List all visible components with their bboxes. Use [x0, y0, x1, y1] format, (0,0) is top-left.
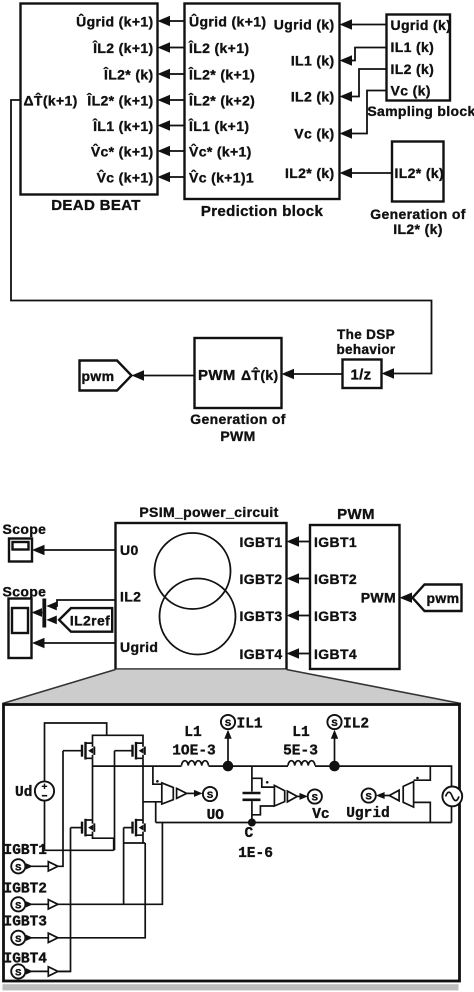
wire PWM IGBT3 to PSIM	[287, 610, 311, 620]
wire PWM IGBT2 to PSIM	[287, 573, 311, 583]
wire main output rail	[93, 766, 452, 787]
source Ud	[15, 781, 54, 801]
block U7 PSIM power circuit	[116, 523, 287, 670]
block U3 Sampling block	[367, 15, 474, 120]
wire gate IGBT4 riser	[58, 828, 71, 972]
wire Q2 gate lead	[115, 750, 133, 752]
svg-text:PWM: PWM	[361, 590, 396, 606]
svg-text:Ugrid (k): Ugrid (k)	[391, 17, 452, 33]
svg-text:ΔT̂(k+1): ΔT̂(k+1)	[24, 91, 78, 108]
block U6 Generation of PWM	[190, 338, 286, 444]
node J2	[329, 761, 340, 772]
svg-text:Vc: Vc	[312, 807, 329, 823]
svg-text:IGBT1: IGBT1	[4, 843, 48, 859]
svg-text:IL2 (k): IL2 (k)	[291, 89, 335, 105]
wire Prediction to DEADBEAT row7	[158, 172, 185, 182]
wire Prediction to DEADBEAT row2	[158, 42, 185, 52]
svg-text:Ugrid: Ugrid	[346, 806, 390, 822]
sensor IL2	[327, 715, 369, 762]
gate drive IGBT1	[4, 843, 58, 874]
svg-text:PWM: PWM	[198, 367, 236, 384]
svg-text:Ûgrid (k+1): Ûgrid (k+1)	[189, 13, 266, 30]
wire Sampling IL1(k) to Prediction	[340, 48, 387, 66]
wire Ud plus to bridge top	[45, 723, 107, 781]
svg-text:V̂c* (k+1): V̂c* (k+1)	[91, 142, 154, 159]
svg-text:Vc (k): Vc (k)	[391, 83, 431, 99]
wire PWM generation to pwm tag	[132, 370, 195, 380]
wire IGBT3 to riser	[58, 843, 145, 938]
capacitor C1	[238, 766, 273, 862]
gate drive IGBT2	[4, 882, 58, 913]
svg-text:pwm: pwm	[82, 368, 115, 384]
wire Ugrid probe minus	[414, 802, 431, 822]
svg-text:Ugrid (k): Ugrid (k)	[274, 17, 335, 33]
wire bridge top rail	[93, 735, 144, 743]
svg-text:DEAD BEAT: DEAD BEAT	[51, 197, 141, 214]
svg-text:ÎL2* (k): ÎL2* (k)	[103, 66, 153, 83]
probe Vc	[252, 778, 330, 823]
svg-text:IGBT2: IGBT2	[240, 571, 283, 587]
wire mux to scope SC2	[32, 608, 43, 617]
wire Prediction to DEADBEAT row4	[158, 95, 185, 105]
wire bridge right leg	[142, 758, 144, 820]
svg-text:Scope: Scope	[3, 521, 47, 537]
node J1	[223, 761, 234, 772]
svg-text:1E-6: 1E-6	[238, 846, 273, 862]
wire Vc probe minus	[252, 806, 275, 815]
wire Q4 source join	[124, 835, 146, 843]
svg-text:U0: U0	[120, 542, 139, 558]
svg-text:PSIM_power_circuit: PSIM_power_circuit	[139, 504, 278, 520]
wire Q3 gate lead	[71, 827, 83, 829]
mux bar	[42, 599, 46, 628]
wire bottom rail	[156, 822, 452, 824]
transformer circle bottom	[160, 579, 236, 655]
svg-text:IL2* (k): IL2* (k)	[285, 165, 334, 181]
zoom trapezoid	[3, 670, 462, 704]
svg-text:IL1: IL1	[237, 717, 263, 733]
svg-text:IGBT3: IGBT3	[240, 608, 283, 624]
wire bridge left leg	[92, 758, 94, 820]
svg-text:5E-3: 5E-3	[283, 744, 318, 760]
svg-text:PWM: PWM	[220, 428, 255, 444]
block U8 PWM	[310, 506, 400, 669]
svg-text:1/z: 1/z	[350, 367, 371, 384]
tag IL2ref	[59, 608, 112, 632]
svg-text:PWM: PWM	[337, 506, 375, 523]
svg-text:L1: L1	[184, 725, 202, 741]
svg-text:ÎL2* (k+1): ÎL2* (k+1)	[188, 66, 255, 83]
wire gate Q2 riser	[114, 751, 116, 851]
gate drive IGBT3	[4, 915, 58, 946]
wire Q3 source return	[93, 835, 114, 850]
svg-text:Ugrid: Ugrid	[120, 639, 158, 655]
svg-text:Generation of: Generation of	[190, 411, 286, 427]
wire PWM IGBT1 to PSIM	[287, 536, 311, 546]
svg-text:UO: UO	[207, 808, 225, 824]
wire U0 probe minus	[143, 802, 162, 823]
wire Generation IL2* to Prediction	[340, 168, 393, 178]
wire Ugrid to scope SC2	[32, 638, 116, 648]
svg-text:Generation of: Generation of	[370, 206, 466, 222]
wire IGBT2 to riser	[58, 823, 162, 905]
wire Sampling IL2(k) to Prediction	[340, 69, 387, 102]
scope SC1	[3, 521, 47, 562]
svg-text:IGBT2: IGBT2	[4, 882, 48, 898]
svg-text:ΔT̂(k): ΔT̂(k)	[241, 366, 278, 383]
transistor Q1 top-left igbt	[82, 742, 94, 760]
svg-text:V̂c (k+1): V̂c (k+1)	[97, 168, 154, 185]
sensor IL1	[221, 715, 263, 762]
svg-text:IGBT4: IGBT4	[4, 952, 48, 968]
bottom gray band	[3, 984, 459, 990]
block U5 1/z	[343, 360, 382, 389]
block U2 Prediction block	[185, 4, 340, 221]
svg-text:IGBT3: IGBT3	[314, 608, 357, 624]
svg-text:ÎL2 (k+1): ÎL2 (k+1)	[188, 39, 249, 56]
block U1 DEAD BEAT	[21, 4, 158, 215]
svg-text:Ud: Ud	[15, 785, 32, 801]
label The DSP behavior	[336, 327, 395, 357]
svg-text:Sampling block: Sampling block	[367, 103, 474, 119]
wire pwm tag to PWM block	[400, 593, 413, 603]
svg-text:Ûgrid (k+1): Ûgrid (k+1)	[76, 13, 153, 30]
svg-text:ÎL2 (k+1): ÎL2 (k+1)	[92, 39, 153, 56]
wire Q4 gate lead	[124, 827, 133, 829]
wire Prediction to DEADBEAT row5	[158, 120, 185, 130]
svg-text:V̂c* (k+1): V̂c* (k+1)	[189, 142, 252, 159]
svg-text:IGBT4: IGBT4	[314, 646, 357, 662]
wire IGBT4 to riser	[58, 970, 71, 972]
wire IL2ref to mux	[46, 616, 57, 625]
svg-text:behavior: behavior	[336, 342, 395, 357]
svg-text:IL2 (k): IL2 (k)	[391, 61, 435, 77]
svg-text:V̂c (k+1)1: V̂c (k+1)1	[189, 168, 254, 185]
wire Sampling Ugrid(k) to Prediction	[340, 19, 387, 29]
transistor Q3 bottom-left igbt	[82, 819, 94, 837]
svg-text:IL1 (k): IL1 (k)	[291, 53, 335, 69]
svg-text:IGBT4: IGBT4	[240, 646, 283, 662]
wire Q1 gate lead	[63, 750, 82, 752]
probe Ugrid	[346, 777, 419, 822]
svg-text:The DSP: The DSP	[337, 327, 395, 342]
svg-text:C: C	[244, 826, 253, 842]
wire Prediction to DEADBEAT row3	[158, 69, 185, 79]
probe U0	[153, 766, 224, 824]
svg-text:ÎL1 (k+1): ÎL1 (k+1)	[92, 117, 153, 134]
svg-text:Vc (k): Vc (k)	[294, 126, 334, 142]
svg-text:1OE-3: 1OE-3	[172, 744, 216, 760]
inductor L1 10E-3	[172, 725, 216, 766]
svg-text:ÎL1 (k+1): ÎL1 (k+1)	[188, 117, 249, 134]
transformer circle top	[155, 533, 231, 609]
wire Ugrid probe plus	[414, 766, 431, 780]
node J3 cap to rail	[248, 819, 256, 827]
wire Sampling Vc(k) to Prediction	[340, 91, 387, 139]
svg-text:IGBT1: IGBT1	[314, 534, 357, 550]
detail circuit box	[4, 705, 460, 982]
svg-text:IL2ref: IL2ref	[70, 613, 110, 629]
block U4 Generation of IL2*(k)	[370, 142, 466, 238]
wire Prediction to DEADBEAT row6	[158, 146, 185, 156]
tag pwm output	[80, 361, 132, 391]
inductor L1 5E-3	[283, 725, 318, 766]
svg-text:IL2: IL2	[120, 589, 141, 605]
wire PWM IGBT4 to PSIM	[287, 648, 311, 658]
tag pwm input	[413, 585, 462, 612]
svg-text:IGBT3: IGBT3	[4, 915, 48, 931]
source AC grid	[442, 787, 462, 807]
wire gate Q4 riser	[123, 828, 125, 905]
wire U0 to scope SC1	[32, 545, 116, 555]
wire AC bottom lead	[451, 806, 453, 822]
svg-text:Scope: Scope	[3, 584, 47, 600]
wire Ud minus return	[45, 801, 114, 851]
wire Prediction to DEADBEAT row1	[158, 16, 185, 26]
transistor Q4 bottom-right igbt	[133, 819, 145, 837]
gate drive IGBT4	[4, 952, 58, 980]
svg-text:IL2: IL2	[343, 717, 369, 733]
wire IL2 to mux	[46, 600, 115, 610]
wire 1/z to PWM generation	[282, 369, 343, 379]
svg-text:IL1 (k): IL1 (k)	[391, 39, 435, 55]
svg-text:ÎL2* (k+1): ÎL2* (k+1)	[86, 92, 153, 109]
transistor Q2 top-right igbt	[133, 742, 145, 760]
svg-text:IGBT2: IGBT2	[314, 571, 357, 587]
scope SC2	[3, 584, 47, 659]
svg-text:ÎL2* (k+2): ÎL2* (k+2)	[188, 92, 255, 109]
svg-text:L1: L1	[292, 725, 310, 741]
svg-text:Prediction block: Prediction block	[201, 203, 324, 220]
svg-text:IGBT1: IGBT1	[240, 534, 283, 550]
wire gate IGBT1 riser	[58, 751, 63, 867]
wire feedback dT(k+1) to 1/z	[11, 100, 432, 374]
svg-text:IL2* (k): IL2* (k)	[395, 165, 444, 181]
svg-text:pwm: pwm	[427, 590, 460, 606]
svg-text:IL2* (k): IL2* (k)	[393, 221, 442, 237]
